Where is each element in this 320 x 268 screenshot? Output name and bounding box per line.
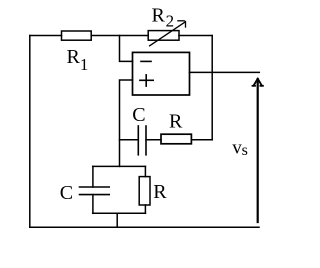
svg-text:s: s xyxy=(242,142,248,159)
resistor R (series) xyxy=(161,134,191,144)
wire parallel branch top xyxy=(93,165,146,167)
wire right vertical (R2 / output / series RC junction) xyxy=(211,36,213,140)
svg-text:R: R xyxy=(67,46,81,68)
resistor R1 xyxy=(62,31,92,40)
svg-text:1: 1 xyxy=(80,55,89,74)
wire output xyxy=(190,71,260,73)
wire R1 to R2 xyxy=(91,35,148,37)
svg-text:R: R xyxy=(153,181,167,203)
wire series R to right vertical xyxy=(191,139,212,141)
capacitor C (parallel) xyxy=(80,166,110,213)
op-amp plus sign xyxy=(140,75,153,86)
svg-text:C: C xyxy=(132,104,145,126)
capacitor C (series) xyxy=(138,126,146,155)
svg-text:2: 2 xyxy=(166,11,175,30)
wire cap to series R xyxy=(146,139,161,141)
wire top: left rail to R1 xyxy=(30,35,62,37)
variable resistor R2 xyxy=(148,31,179,41)
wire series branch left xyxy=(120,139,139,141)
wire bottom rail xyxy=(30,226,259,228)
op-amp minus sign xyxy=(141,60,151,62)
svg-text:R: R xyxy=(152,5,166,27)
wire parallel branch bottom xyxy=(93,212,146,214)
wire stub to ground rail xyxy=(116,213,118,227)
resistor R (parallel) xyxy=(139,166,150,213)
wire R2 to right corner xyxy=(179,35,212,37)
wire noninverting input xyxy=(120,80,133,166)
op-amp U1 xyxy=(133,52,190,95)
svg-text:R: R xyxy=(169,111,183,133)
R2 wiper arrow xyxy=(150,21,186,46)
vs source arrow xyxy=(253,79,263,222)
wire left rail xyxy=(29,36,31,228)
wire inverting input drop xyxy=(120,36,133,62)
svg-text:C: C xyxy=(60,182,73,204)
